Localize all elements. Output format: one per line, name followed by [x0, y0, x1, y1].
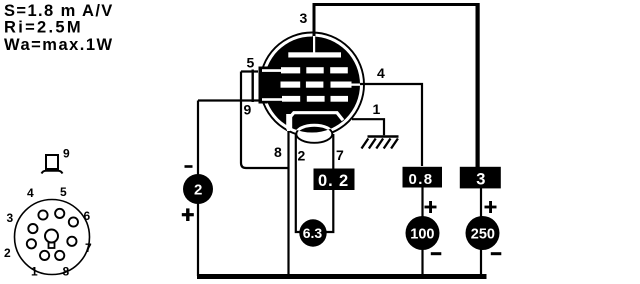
svg-text:1: 1 [373, 101, 381, 117]
svg-text:5: 5 [60, 185, 67, 199]
svg-text:Ri=2.5M: Ri=2.5M [4, 19, 83, 37]
svg-text:0.8: 0.8 [409, 171, 434, 188]
svg-text:250: 250 [471, 226, 495, 242]
svg-text:2: 2 [194, 182, 202, 199]
svg-text:3: 3 [300, 10, 308, 26]
svg-text:2: 2 [4, 246, 11, 260]
svg-text:5: 5 [247, 55, 255, 71]
svg-text:9: 9 [244, 102, 252, 118]
svg-text:6.3: 6.3 [303, 225, 323, 241]
svg-text:100: 100 [410, 226, 434, 242]
svg-text:2: 2 [298, 148, 306, 164]
svg-text:8: 8 [274, 144, 282, 160]
svg-text:4: 4 [377, 65, 385, 81]
svg-text:1: 1 [31, 265, 38, 279]
svg-text:7: 7 [336, 147, 344, 163]
svg-text:7: 7 [85, 241, 92, 255]
svg-text:Wa=max.1W: Wa=max.1W [4, 36, 114, 54]
svg-text:3: 3 [7, 211, 14, 225]
svg-text:4: 4 [27, 186, 34, 200]
svg-text:6: 6 [84, 209, 91, 223]
svg-text:3: 3 [476, 171, 485, 189]
svg-text:8: 8 [63, 265, 70, 279]
svg-text:0. 2: 0. 2 [318, 172, 349, 190]
svg-text:S=1.8 m A/V: S=1.8 m A/V [4, 2, 114, 20]
svg-text:9: 9 [63, 147, 70, 161]
